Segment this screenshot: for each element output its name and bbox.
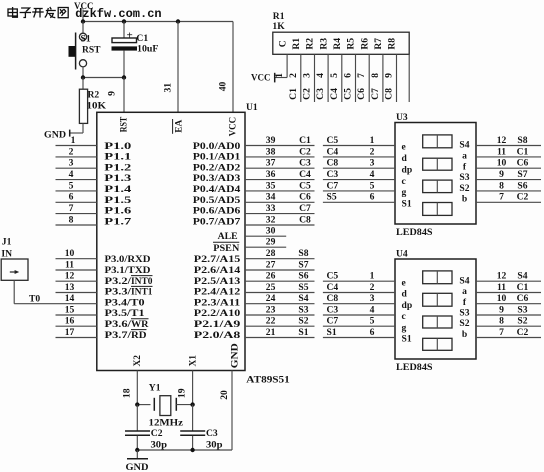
- svg-text:b: b: [462, 194, 467, 205]
- svg-text:C3: C3: [206, 428, 218, 439]
- R1 pin 1 wire to VCC: [286, 54, 288, 77]
- svg-text:7: 7: [499, 327, 504, 338]
- wire pin 37 net C3: [245, 167, 315, 169]
- svg-text:P2.3/A11: P2.3/A11: [194, 297, 241, 308]
- svg-text:b: b: [462, 329, 467, 340]
- R1 pin 9 wire: [396, 54, 398, 102]
- svg-text:EA: EA: [173, 120, 184, 133]
- svg-text:9: 9: [499, 304, 504, 315]
- svg-text:1: 1: [71, 135, 76, 146]
- svg-text:P0.7/AD7: P0.7/AD7: [193, 216, 241, 227]
- wire pin 6 (P1.5): [56, 201, 97, 203]
- U3 segment indicator 2: [423, 158, 452, 170]
- capacitor C2 30p: [125, 405, 150, 450]
- svg-text:S5: S5: [327, 192, 337, 203]
- svg-text:17: 17: [65, 327, 75, 338]
- U4 segment indicator 4: [423, 338, 452, 350]
- svg-text:P2.2/A10: P2.2/A10: [194, 308, 241, 319]
- svg-text:INT1: INT1: [131, 287, 153, 298]
- junction S1 bottom: [81, 75, 85, 79]
- U3 input wire pin 1 net C5: [323, 145, 395, 147]
- wire pin 23 net S3: [245, 314, 315, 316]
- svg-text:4: 4: [69, 169, 74, 180]
- wire pin 27 net S7: [245, 269, 315, 271]
- power VCC at R1: [274, 73, 276, 83]
- svg-text:GND: GND: [229, 343, 240, 368]
- wire pin 15 (P3.5): [56, 314, 97, 316]
- svg-text:VCC: VCC: [74, 1, 94, 12]
- svg-text:C1: C1: [136, 33, 148, 44]
- svg-text:X1: X1: [188, 355, 199, 367]
- svg-text:S3: S3: [459, 308, 469, 319]
- svg-text:d: d: [402, 153, 408, 164]
- svg-text:20: 20: [219, 390, 230, 400]
- svg-text:S4: S4: [459, 275, 469, 286]
- svg-text:C7: C7: [299, 203, 311, 214]
- wire pin 24 net S4: [245, 303, 315, 305]
- svg-text:Y1: Y1: [149, 383, 161, 394]
- wire pin 31 EA column: [177, 22, 179, 113]
- R1 pin 6 wire: [355, 54, 357, 102]
- wire VCC rail: [83, 21, 233, 23]
- svg-text:S2: S2: [459, 318, 469, 329]
- svg-text:22: 22: [266, 316, 276, 327]
- svg-text:P1.4: P1.4: [104, 184, 131, 195]
- svg-text:29: 29: [266, 237, 276, 248]
- svg-text:C2: C2: [517, 192, 529, 203]
- U4 input wire pin 6 net S1: [323, 337, 395, 339]
- svg-text:C3: C3: [327, 304, 339, 315]
- svg-text:C8: C8: [327, 293, 339, 304]
- svg-text:P0.6/AD6: P0.6/AD6: [193, 206, 241, 217]
- svg-text:X2: X2: [132, 355, 143, 367]
- svg-text:P2.7/A15: P2.7/A15: [194, 254, 241, 265]
- svg-text:C4: C4: [327, 282, 339, 293]
- svg-text:P3.4/T0: P3.4/T0: [105, 297, 145, 308]
- svg-text:LED84S: LED84S: [396, 362, 433, 373]
- svg-text:a: a: [462, 286, 467, 297]
- svg-text:LED84S: LED84S: [396, 227, 433, 238]
- svg-text:10: 10: [65, 248, 75, 259]
- svg-text:g: g: [402, 187, 407, 198]
- U4 output wire pin 10 net C6: [476, 303, 541, 305]
- wire pin 4 (P1.3): [56, 179, 97, 181]
- svg-text:18: 18: [121, 388, 132, 398]
- svg-text:RST: RST: [118, 116, 129, 132]
- svg-text:S8: S8: [517, 135, 527, 146]
- svg-text:dp: dp: [402, 164, 413, 175]
- U4 segment indicator 1: [423, 271, 452, 284]
- U4 input wire pin 5 net C7: [323, 325, 395, 327]
- svg-text:S3: S3: [517, 304, 527, 315]
- svg-text:R3: R3: [318, 38, 329, 50]
- svg-text:C6: C6: [299, 192, 311, 203]
- svg-text:27: 27: [266, 259, 276, 270]
- wire pin 29 PSEN: [245, 246, 286, 248]
- svg-text:6: 6: [343, 73, 354, 78]
- U4 output wire pin 8 net S2: [476, 325, 541, 327]
- wire pin 35 net C5: [245, 190, 315, 192]
- svg-text:c: c: [402, 176, 407, 187]
- U4 input wire pin 1 net C5: [323, 280, 395, 282]
- svg-text:19: 19: [176, 388, 187, 398]
- svg-text:C7: C7: [327, 316, 339, 327]
- svg-text:P3.5/T1: P3.5/T1: [105, 308, 145, 319]
- svg-text:S7: S7: [517, 169, 527, 180]
- svg-text:S4: S4: [298, 293, 308, 304]
- wire pin 19 X1 column: [192, 371, 194, 405]
- junction at S1 top: [81, 19, 85, 23]
- svg-text:ALE: ALE: [218, 231, 238, 242]
- wire pin 3 (P1.2): [56, 167, 97, 169]
- wire pin 33 net C7: [245, 213, 315, 215]
- svg-text:S1: S1: [298, 327, 308, 338]
- U4 segment indicator 3: [423, 316, 452, 328]
- svg-text:P3.0/RXD: P3.0/RXD: [105, 254, 151, 265]
- svg-text:P1.2: P1.2: [104, 162, 131, 173]
- svg-text:13: 13: [65, 282, 75, 293]
- svg-text:8: 8: [69, 214, 74, 225]
- svg-text:P1.7: P1.7: [104, 216, 131, 227]
- wire pin 10 (P3.0): [56, 258, 97, 260]
- svg-text:40: 40: [217, 82, 228, 92]
- svg-text:24: 24: [266, 293, 276, 304]
- svg-text:P2.5/A13: P2.5/A13: [194, 276, 241, 287]
- U3 output wire pin 11 net C1: [476, 156, 541, 158]
- svg-text:S3: S3: [298, 304, 308, 315]
- svg-text:S2: S2: [517, 316, 527, 327]
- svg-text:2: 2: [69, 146, 74, 157]
- junction at C1 top: [122, 19, 126, 23]
- crystal Y1 12MHz: [137, 396, 192, 416]
- wire pin 36 net C4: [245, 179, 315, 181]
- svg-text:C6: C6: [517, 293, 529, 304]
- wire pin 26 net S6: [245, 280, 315, 282]
- IC U1 AT89S51 body: [97, 112, 245, 370]
- svg-text:a: a: [462, 151, 467, 162]
- junction C1 bottom / pin9: [122, 75, 126, 79]
- svg-text:10: 10: [497, 158, 507, 169]
- wire pin 13 (P3.3): [56, 292, 97, 294]
- svg-text:10: 10: [497, 293, 507, 304]
- svg-text:S6: S6: [517, 180, 527, 191]
- svg-text:P1.0: P1.0: [104, 141, 131, 152]
- svg-text:RST: RST: [82, 45, 101, 56]
- svg-text:R2: R2: [88, 90, 100, 101]
- capacitor C1 10uF: [112, 22, 138, 78]
- svg-text:e: e: [402, 142, 407, 153]
- U3 output wire pin 8 net S6: [476, 190, 541, 192]
- svg-text:C1: C1: [288, 88, 299, 100]
- wire pin 7 (P1.6): [56, 213, 97, 215]
- pushbutton S1 RST: [69, 22, 87, 78]
- watermark 电子开发网 (CJK strokes): [8, 7, 68, 18]
- svg-text:39: 39: [266, 135, 276, 146]
- svg-text:C: C: [277, 40, 288, 47]
- svg-text:P3.2/: P3.2/: [105, 276, 132, 287]
- svg-text:12: 12: [65, 271, 75, 282]
- svg-text:30p: 30p: [151, 439, 168, 450]
- svg-text:12: 12: [497, 271, 507, 282]
- svg-text:34: 34: [266, 192, 276, 203]
- svg-text:S1: S1: [81, 34, 91, 45]
- svg-text:5: 5: [69, 180, 74, 191]
- svg-text:R1: R1: [291, 38, 302, 50]
- svg-text:J1: J1: [2, 236, 12, 247]
- svg-text:S4: S4: [459, 140, 469, 151]
- svg-text:P1.1: P1.1: [104, 152, 131, 163]
- svg-text:23: 23: [266, 304, 276, 315]
- svg-text:3: 3: [69, 158, 74, 169]
- svg-text:6: 6: [370, 327, 375, 338]
- svg-text:C8: C8: [327, 158, 339, 169]
- wire pin 2 (P1.1): [56, 156, 97, 158]
- svg-text:P2.4/A12: P2.4/A12: [194, 287, 241, 298]
- svg-text:P3.7/: P3.7/: [105, 330, 132, 341]
- svg-text:11: 11: [497, 282, 506, 293]
- svg-text:3: 3: [370, 293, 375, 304]
- svg-text:6: 6: [69, 192, 74, 203]
- wire pin 32 net C8: [245, 224, 315, 226]
- U4 input wire pin 2 net C4: [323, 292, 395, 294]
- wire bottom ground rail: [137, 449, 232, 451]
- svg-text:11: 11: [497, 146, 506, 157]
- svg-text:R5: R5: [346, 38, 357, 50]
- U3 segment indicator 3: [423, 180, 452, 193]
- svg-text:31: 31: [162, 83, 173, 93]
- R1 pin 4 wire: [327, 54, 329, 102]
- svg-text:C5: C5: [343, 88, 354, 100]
- svg-text:VCC: VCC: [227, 117, 238, 137]
- svg-text:C4: C4: [329, 88, 340, 100]
- svg-text:1: 1: [370, 135, 375, 146]
- svg-text:C7: C7: [370, 88, 381, 100]
- svg-text:P1.6: P1.6: [104, 206, 131, 217]
- svg-text:2: 2: [370, 146, 375, 157]
- svg-text:e: e: [402, 277, 407, 288]
- wire pin 39 net C1: [245, 145, 315, 147]
- svg-text:4: 4: [370, 169, 375, 180]
- svg-text:C7: C7: [327, 180, 339, 191]
- svg-text:10K: 10K: [87, 101, 107, 112]
- wire pin 17 (P3.7): [56, 337, 97, 339]
- U3 output wire pin 10 net C6: [476, 167, 541, 169]
- wire pin 22 net S2: [245, 325, 315, 327]
- svg-text:GND: GND: [126, 462, 149, 472]
- svg-text:C8: C8: [299, 214, 311, 225]
- svg-text:8: 8: [370, 73, 381, 78]
- svg-text:R7: R7: [373, 38, 384, 50]
- wire pin 5 (P1.4): [56, 190, 97, 192]
- junction C2 bottom: [135, 448, 139, 452]
- wire pin 38 net C2: [245, 156, 315, 158]
- svg-text:R4: R4: [332, 38, 343, 50]
- svg-text:16: 16: [65, 316, 75, 327]
- svg-text:9: 9: [384, 73, 395, 78]
- svg-text:C3: C3: [315, 88, 326, 100]
- svg-text:30p: 30p: [206, 439, 223, 450]
- svg-text:P0.1/AD1: P0.1/AD1: [193, 152, 241, 163]
- U4 output wire pin 11 net C1: [476, 292, 541, 294]
- svg-text:5: 5: [329, 73, 340, 78]
- junction at EA column: [176, 19, 180, 23]
- svg-text:9: 9: [499, 169, 504, 180]
- svg-text:VCC: VCC: [251, 72, 271, 83]
- svg-text:C1: C1: [517, 146, 529, 157]
- svg-text:C3: C3: [327, 169, 339, 180]
- U4 input wire pin 3 net C8: [323, 303, 395, 305]
- capacitor C3 30p: [180, 405, 205, 450]
- LED display U4 LED84S body: [395, 259, 476, 359]
- svg-text:INT0: INT0: [131, 276, 153, 287]
- U4 segment indicator 2: [423, 293, 452, 306]
- R1 pin 7 wire: [368, 54, 370, 102]
- wire pin 14 (P3.4): [14, 303, 97, 305]
- svg-text:7: 7: [69, 203, 74, 214]
- svg-text:P2.1/A9: P2.1/A9: [194, 319, 241, 330]
- svg-text:38: 38: [266, 146, 276, 157]
- U3 output wire pin 12 net S8: [476, 145, 541, 147]
- svg-text:C1: C1: [299, 135, 311, 146]
- svg-text:5: 5: [370, 316, 375, 327]
- R1 pin 3 wire: [314, 54, 316, 102]
- svg-text:c: c: [402, 311, 407, 322]
- svg-text:P1.5: P1.5: [104, 195, 131, 206]
- svg-text:25: 25: [266, 282, 276, 293]
- svg-text:C3: C3: [299, 158, 311, 169]
- svg-text:R2: R2: [305, 38, 316, 50]
- U4 output wire pin 12 net S4: [476, 280, 541, 282]
- svg-text:32: 32: [266, 214, 276, 225]
- svg-text:P0.0/AD0: P0.0/AD0: [193, 141, 241, 152]
- R1 pin 5 wire: [341, 54, 343, 102]
- svg-text:3: 3: [302, 73, 313, 78]
- R1 pin 10 wire: [408, 54, 410, 102]
- svg-text:2: 2: [288, 73, 299, 78]
- svg-text:7: 7: [499, 192, 504, 203]
- U4 output wire pin 7 net C2: [476, 337, 541, 339]
- svg-text:C2: C2: [517, 327, 529, 338]
- svg-text:8: 8: [499, 316, 504, 327]
- ground GND bottom: [136, 450, 138, 459]
- svg-text:S1: S1: [402, 199, 412, 210]
- wire pin 11 (P3.1): [56, 269, 97, 271]
- svg-text:1K: 1K: [272, 21, 285, 32]
- svg-text:4: 4: [370, 304, 375, 315]
- svg-text:30: 30: [266, 226, 276, 237]
- svg-text:C4: C4: [299, 169, 311, 180]
- svg-text:+: +: [127, 30, 133, 42]
- svg-text:U1: U1: [246, 102, 258, 113]
- svg-text:S5: S5: [298, 282, 308, 293]
- LED display U3 LED84S body: [395, 123, 476, 225]
- svg-text:P1.3: P1.3: [104, 173, 131, 184]
- svg-text:35: 35: [266, 180, 276, 191]
- svg-text:g: g: [402, 322, 407, 333]
- svg-text:T0: T0: [29, 294, 40, 305]
- svg-text:37: 37: [266, 158, 276, 169]
- svg-text:C2: C2: [302, 88, 313, 100]
- wire J1 to pin 14: [13, 280, 15, 303]
- svg-text:7: 7: [356, 73, 367, 78]
- svg-text:26: 26: [266, 271, 276, 282]
- svg-text:S4: S4: [517, 271, 527, 282]
- wire pin 28 net S8: [245, 258, 315, 260]
- svg-text:C6: C6: [356, 88, 367, 100]
- U3 input wire pin 3 net C8: [323, 167, 395, 169]
- wire pin 21 net S1: [245, 337, 315, 339]
- U3 input wire pin 6 net S5: [323, 201, 395, 203]
- svg-text:C8: C8: [384, 88, 395, 100]
- svg-text:d: d: [402, 289, 408, 300]
- svg-text:P3.6/: P3.6/: [105, 319, 132, 330]
- svg-text:1: 1: [274, 73, 285, 78]
- svg-text:RD: RD: [131, 330, 147, 341]
- svg-text:P2.6/A14: P2.6/A14: [194, 265, 241, 276]
- svg-text:6: 6: [370, 192, 375, 203]
- svg-text:f: f: [463, 161, 467, 172]
- junction X1/Y1: [190, 402, 194, 406]
- svg-text:1: 1: [370, 271, 375, 282]
- U3 input wire pin 4 net C3: [323, 179, 395, 181]
- svg-text:R6: R6: [359, 38, 370, 50]
- wire pin 16 (P3.6): [56, 325, 97, 327]
- wire pin 40 VCC column: [232, 22, 234, 113]
- R1 pin 2 wire: [300, 54, 302, 102]
- wire pin 1 (P1.0): [56, 145, 97, 147]
- svg-text:C4: C4: [327, 146, 339, 157]
- svg-text:P2.0/A8: P2.0/A8: [194, 330, 241, 341]
- svg-text:21: 21: [266, 327, 276, 338]
- wire pin 8 (P1.7): [56, 224, 97, 226]
- svg-text:U4: U4: [396, 249, 408, 260]
- svg-text:14: 14: [65, 293, 75, 304]
- svg-text:IN: IN: [1, 248, 12, 259]
- U3 input wire pin 5 net C7: [323, 190, 395, 192]
- svg-text:8: 8: [499, 180, 504, 191]
- svg-text:S7: S7: [298, 259, 308, 270]
- U3 input wire pin 2 net C4: [323, 156, 395, 158]
- wire pin 30 ALE: [245, 235, 286, 237]
- svg-text:AT89S51: AT89S51: [246, 374, 290, 385]
- junction X2/Y1: [135, 402, 139, 406]
- svg-text:P3.1/TXD: P3.1/TXD: [105, 265, 151, 276]
- svg-text:R8: R8: [387, 38, 398, 50]
- R1 pin 8 wire: [382, 54, 384, 102]
- svg-text:dp: dp: [402, 300, 413, 311]
- U3 segment indicator 4: [423, 203, 452, 216]
- svg-text:P0.2/AD2: P0.2/AD2: [193, 162, 241, 173]
- svg-text:9: 9: [107, 91, 118, 96]
- svg-text:S3: S3: [459, 172, 469, 183]
- svg-text:U3: U3: [396, 112, 408, 123]
- svg-text:S8: S8: [298, 248, 308, 259]
- svg-text:36: 36: [266, 169, 276, 180]
- svg-text:12: 12: [497, 135, 507, 146]
- svg-text:WR: WR: [131, 319, 150, 330]
- svg-text:PSEN: PSEN: [213, 243, 239, 254]
- svg-text:15: 15: [65, 304, 75, 315]
- resistor R2 10K: [79, 78, 87, 134]
- wire S1/C1 bottom to RST: [83, 77, 124, 79]
- svg-text:P0.5/AD5: P0.5/AD5: [193, 195, 241, 206]
- junction C3 bottom: [190, 448, 194, 452]
- svg-text:5: 5: [370, 180, 375, 191]
- svg-text:S2: S2: [298, 316, 308, 327]
- svg-text:GND: GND: [44, 130, 66, 141]
- svg-text:S6: S6: [298, 271, 308, 282]
- U4 output wire pin 9 net S3: [476, 314, 541, 316]
